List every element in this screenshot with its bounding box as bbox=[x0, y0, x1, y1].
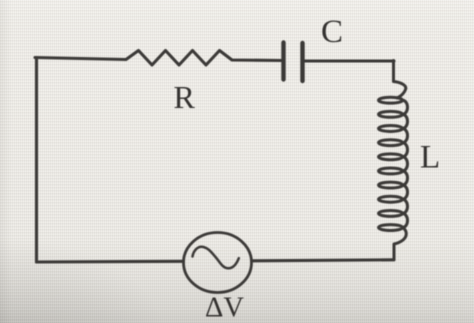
svg-text:L: L bbox=[420, 140, 440, 176]
svg-text:ΔV: ΔV bbox=[205, 293, 244, 323]
svg-text:R: R bbox=[174, 79, 196, 115]
svg-text:C: C bbox=[321, 14, 343, 50]
